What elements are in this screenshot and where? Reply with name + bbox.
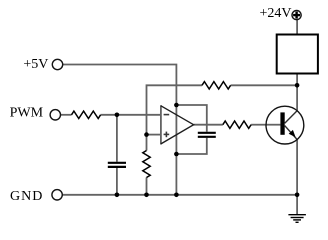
svg-text:PWM: PWM [10,106,44,121]
svg-text:+24V: +24V [260,6,292,21]
svg-text:+5V: +5V [23,57,48,72]
svg-text:GND: GND [10,189,42,204]
